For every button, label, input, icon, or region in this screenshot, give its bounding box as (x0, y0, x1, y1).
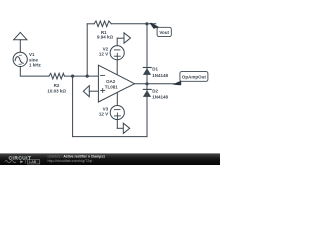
wire vertical up to R1 (86, 24, 88, 76)
voltage source V2 (110, 46, 124, 60)
svg-text:ozdeb22 / Active rectifier n C: ozdeb22 / Active rectifier n Clamps1 (48, 155, 106, 159)
svg-text:http://circuitlab.com/c/g/72qt: http://circuitlab.com/c/g/72qt (48, 159, 93, 163)
op-amp output wire (135, 83, 175, 85)
junction dot output node (145, 82, 148, 85)
node flag (right) on V3 bottom (117, 120, 129, 134)
svg-text:OA2: OA2 (106, 79, 116, 84)
node flag (right) on V2 top (117, 33, 130, 46)
label D2 (152, 88, 168, 99)
label OA2 (105, 79, 119, 89)
wire V3 top pin into op-amp (116, 93, 118, 106)
wire V2 bottom pin into op-amp (116, 60, 118, 75)
svg-text:12 V: 12 V (99, 112, 108, 117)
resistor R2 (49, 73, 65, 79)
wire feedback left vertical down (72, 76, 74, 137)
svg-text:1 kHz: 1 kHz (29, 63, 42, 68)
watermark text (48, 155, 106, 163)
node flag (up) on V1 top (14, 32, 27, 52)
Vout label box (157, 27, 171, 36)
CircuitLab logo (5, 155, 40, 164)
label V2 (99, 47, 109, 57)
svg-text:OpAmpOut: OpAmpOut (182, 74, 206, 79)
op-amp OA2 (98, 65, 134, 102)
label V1 (29, 52, 42, 67)
wire to resistor R1 (87, 23, 94, 25)
resistor R1 (94, 21, 111, 27)
svg-text:D1: D1 (152, 66, 158, 71)
junction dot B (feedback up to R1) (86, 75, 89, 78)
svg-text:Vout: Vout (159, 30, 169, 35)
wire R1 to Vout node (111, 23, 156, 25)
watermark band (0, 153, 220, 165)
diode D1 (143, 68, 151, 75)
voltage source V1 (13, 52, 27, 66)
junction dot A (feedback down) (71, 75, 74, 78)
node flag (left) on op-amp plus input (83, 86, 98, 97)
voltage source V3 (110, 105, 124, 119)
diode D2 (143, 89, 151, 97)
svg-text:1N4148: 1N4148 (152, 95, 168, 100)
svg-text:sine: sine (29, 57, 39, 62)
svg-text:D2: D2 (152, 88, 158, 93)
svg-text:LAB: LAB (29, 160, 37, 164)
Vout label flag pointer (150, 23, 160, 29)
OpAmpOut label box (180, 72, 208, 82)
wire diode chain vertical (146, 24, 148, 137)
svg-text:10.03 kΩ: 10.03 kΩ (47, 88, 66, 93)
junction dot Vout node (145, 22, 148, 25)
label R2 (47, 83, 66, 93)
label V3 (99, 106, 109, 116)
svg-text:9.94 kΩ: 9.94 kΩ (97, 34, 114, 39)
svg-text:1N4148: 1N4148 (152, 73, 168, 78)
label R1 (97, 30, 114, 39)
label D1 (152, 66, 168, 78)
svg-text:V3: V3 (103, 106, 109, 111)
wire R2 to op-amp minus input (64, 75, 98, 77)
svg-text:TL081: TL081 (105, 84, 119, 89)
wire V1 bottom to R2 (20, 67, 49, 77)
svg-text:12 V: 12 V (99, 52, 108, 57)
OpAmpOut label flag pointer (172, 81, 181, 86)
wire bottom horizontal (73, 136, 147, 138)
